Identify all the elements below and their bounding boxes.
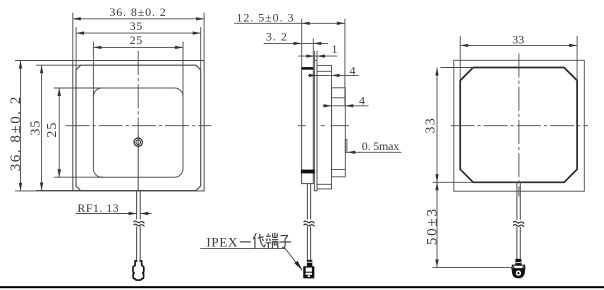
centerline vertical bbox=[518, 54, 520, 197]
CJK glyph yi bbox=[240, 233, 291, 249]
CJK glyph dai bbox=[253, 233, 265, 249]
svg-text:25: 25 bbox=[130, 33, 143, 47]
svg-text:4: 4 bbox=[359, 94, 365, 108]
vertical centerline bbox=[137, 51, 139, 133]
dim 36.8+-0.2 top bbox=[73, 13, 204, 61]
IPEX connector (front) bbox=[515, 259, 521, 265]
label RF1.13 with leader to cable bbox=[76, 213, 152, 215]
cable break symbol bbox=[304, 221, 315, 226]
dim 4 (block 2) bbox=[323, 105, 369, 107]
liner tab (0.5max) bbox=[345, 140, 347, 153]
dim 12.5+-0.3 bbox=[302, 19, 345, 106]
dim 35 top bbox=[76, 27, 201, 70]
ceramic slab bbox=[302, 68, 314, 184]
IPEX connector (front silhouette) bbox=[133, 260, 144, 280]
dim 4 (block 1) bbox=[308, 74, 359, 76]
dim 36.8+-0.2 left bbox=[15, 61, 73, 191]
bottom sheet border bbox=[0, 286, 604, 288]
foam block 1 (4mm) bbox=[317, 65, 332, 188]
silver electrode 25 rounded square bbox=[93, 88, 183, 177]
svg-text:1: 1 bbox=[332, 42, 338, 56]
svg-text:36. 8±0. 2: 36. 8±0. 2 bbox=[8, 95, 24, 171]
cable below back view bbox=[517, 182, 520, 258]
svg-text:50±3: 50±3 bbox=[424, 207, 440, 245]
ceramic top electrode thick line bbox=[302, 67, 314, 70]
outer base plate square bbox=[454, 60, 585, 191]
CJK glyph zi bbox=[279, 235, 291, 248]
ceramic 35 square with chamfered corners bbox=[76, 65, 201, 190]
svg-text:25: 25 bbox=[45, 122, 60, 138]
cable below side view bbox=[307, 184, 310, 260]
dim 33 left bbox=[433, 68, 473, 183]
horizontal centerline bbox=[66, 125, 212, 127]
cable break symbol bbox=[134, 221, 145, 226]
foam block 2 (4mm) bbox=[332, 88, 346, 177]
dim 0.5max leader bbox=[347, 151, 401, 153]
svg-text:0. 5max: 0. 5max bbox=[362, 139, 399, 153]
feed line bbox=[137, 133, 139, 191]
cable break symbol bbox=[513, 221, 524, 226]
dim 33 top bbox=[460, 36, 577, 81]
chamfered octagon (ceramic back) bbox=[460, 68, 577, 183]
svg-text:35: 35 bbox=[29, 120, 44, 136]
centerline horizontal bbox=[451, 125, 589, 127]
feed point circle bbox=[134, 138, 142, 146]
IPEX label underline and leader arrow bbox=[200, 249, 302, 271]
dim 3.2 bbox=[312, 38, 314, 67]
svg-text:12. 5±0. 3: 12. 5±0. 3 bbox=[236, 10, 294, 24]
svg-text:33: 33 bbox=[423, 117, 438, 134]
ceramic bottom electrode black bar bbox=[301, 170, 315, 174]
dim 25 left bbox=[54, 88, 103, 177]
svg-text:RF1. 13: RF1. 13 bbox=[77, 201, 119, 215]
svg-text:IPEX: IPEX bbox=[206, 235, 238, 250]
dim 25 top bbox=[93, 42, 183, 98]
CJK glyph duan bbox=[266, 233, 279, 249]
IPEX connector (side silhouette) bbox=[307, 260, 312, 267]
dim 1 bbox=[314, 51, 317, 60]
base plate (1mm) bbox=[314, 60, 317, 191]
horizontal centerline bbox=[298, 125, 349, 127]
svg-text:4: 4 bbox=[350, 63, 356, 77]
outer base plate square 36.8 bbox=[73, 61, 204, 191]
dim 50+-3 bbox=[433, 266, 513, 268]
svg-text:35: 35 bbox=[130, 19, 143, 33]
svg-text:3. 2: 3. 2 bbox=[266, 30, 288, 44]
svg-text:36. 8±0. 2: 36. 8±0. 2 bbox=[109, 5, 166, 19]
dim 35 left bbox=[36, 65, 81, 190]
svg-text:33: 33 bbox=[512, 33, 524, 47]
cable below view bbox=[137, 191, 141, 261]
